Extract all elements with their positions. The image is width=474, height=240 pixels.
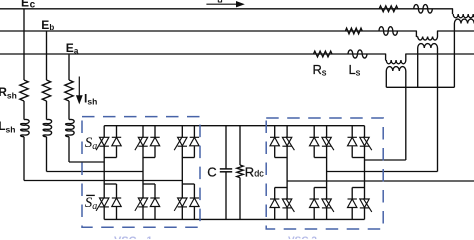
VSC1 leg2 midpoint wire (142, 158, 144, 185)
wire T3 secondary left leg (453, 24, 455, 88)
wire tap phase-c to VSC1 leg3 (24, 180, 182, 182)
VSC2 leg1 midpoint wire (286, 158, 288, 188)
wire shunt branch top (phase b) (46, 31, 48, 80)
svg-text:VSC 2: VSC 2 (288, 236, 317, 240)
VSC1 leg3 top cell switch branch (181, 126, 183, 138)
svg-text:Eb: Eb (41, 18, 54, 32)
VSC2 leg1 bottom cell top connector (275, 187, 287, 189)
wire phase-c source line Ec (0, 9, 453, 14)
VSC1 leg2 bottom cell anti-parallel diode branch (154, 184, 156, 198)
wire tap phase-a to VSC1 leg1 (69, 161, 104, 163)
VSC1 leg2 bottom cell switch branch (142, 184, 144, 198)
wire VSC2 leg3 midpoint to T1 secondary (365, 159, 406, 161)
transformer T1 secondary winding (phase a) (386, 67, 406, 71)
VSC1 leg1 top cell anti-parallel diode branch (116, 126, 118, 138)
wire VSC2 leg2 midpoint to T2 secondary (327, 171, 438, 173)
wire T1 secondary right leg (405, 71, 407, 160)
VSC2 leg1 bottom cell switch branch (286, 188, 288, 200)
VSC1 leg3 bottom cell anti-parallel diode branch (193, 184, 195, 198)
wire DC bus negative rail (104, 218, 364, 220)
wire shunt branch top (phase a) (68, 54, 70, 80)
VSC1 leg1 top cell bottom connector (104, 157, 116, 159)
VSC1 leg3 bottom cell top connector (182, 183, 194, 185)
VSC1 leg1 bottom cell top connector (104, 183, 116, 185)
VSC2 leg1 top cell switch branch (286, 126, 288, 138)
resistor Rs (phase c) (379, 6, 398, 12)
wire T1 secondary left leg (385, 71, 387, 87)
resistor Rsh (phase b) (42, 80, 50, 101)
VSC1 leg3 midpoint wire (181, 158, 183, 185)
wire secondary star-point bus (386, 86, 454, 88)
VSC2 leg2 bottom cell switch branch (326, 188, 328, 200)
VSC2 leg3 bottom cell switch branch (364, 188, 366, 200)
inductor Ls (phase b) (379, 27, 397, 36)
VSC2 leg1 bottom cell anti-parallel diode branch (274, 188, 276, 200)
resistor Rsh (phase c) (20, 80, 28, 101)
resistor Rsh (phase a) (65, 80, 73, 101)
label Sa-bar overline (86, 194, 95, 196)
wire phase-b source line Eb (0, 31, 418, 37)
wire capacitor branch bottom (225, 172, 227, 219)
wire between Rsh and Lsh (phase c) (23, 101, 25, 120)
current arrow i (top line) (206, 3, 237, 5)
svg-text:Ec: Ec (21, 0, 36, 11)
wire shunt branch top (phase c) (23, 9, 25, 80)
wire Rdc branch top (239, 126, 241, 165)
wire phase-a source line Ea (0, 54, 386, 60)
VSC2 dashed boundary box (266, 118, 383, 229)
transformer T1 primary winding (phase a) (386, 60, 406, 64)
transformer T2 primary winding (phase b) (418, 37, 438, 41)
inductor Lsh (phase a) (66, 119, 75, 136)
svg-text:Ea: Ea (66, 41, 79, 55)
VSC1 leg2 top cell switch branch (142, 126, 144, 138)
wire T2 secondary right leg (437, 48, 439, 172)
VSC2 leg2 top cell bottom connector (314, 157, 326, 159)
wire Rdc branch bottom (239, 178, 241, 220)
svg-text:Sa: Sa (85, 135, 98, 152)
wire capacitor branch top (225, 126, 227, 169)
svg-text:C: C (207, 164, 216, 179)
VSC2 leg1 top cell anti-parallel diode branch (274, 126, 276, 138)
wire between Rsh and Lsh (phase b) (46, 101, 48, 120)
resistor Rdc (237, 165, 243, 178)
wire between Rsh and Lsh (phase a) (68, 101, 70, 120)
wire shunt branch to VSC1 (phase a) (68, 137, 70, 162)
VSC2 leg2 top cell switch branch (326, 126, 328, 138)
VSC2 leg2 bottom cell top connector (314, 187, 326, 189)
wire DC bus positive rail (104, 125, 364, 127)
VSC1 leg1 bottom cell switch branch (103, 184, 105, 198)
VSC2 leg2 midpoint wire (326, 158, 328, 188)
current arrow Ish (78, 77, 80, 97)
VSC1 leg1 top cell switch branch (103, 126, 105, 138)
VSC2 leg1 top cell bottom connector (275, 157, 287, 159)
VSC2 leg2 bottom cell anti-parallel diode branch (313, 188, 315, 200)
transformer T3 secondary winding (phase c, clipped) (454, 19, 474, 23)
svg-text:Sa: Sa (85, 195, 98, 212)
svg-text:VSC - 1: VSC - 1 (114, 235, 153, 239)
inductor Ls (phase c) (414, 4, 433, 13)
VSC1 leg1 midpoint wire (103, 158, 105, 185)
wire T2 secondary left leg (417, 48, 419, 87)
VSC2 leg3 bottom cell anti-parallel diode branch (351, 188, 353, 200)
wire phase-a line to load (406, 54, 474, 60)
VSC1 leg3 top cell bottom connector (182, 157, 194, 159)
VSC2 leg3 bottom cell top connector (352, 187, 364, 189)
wire VSC2 leg1 midpoint to T3 secondary (off-page) (287, 180, 474, 182)
inductor Lsh (phase b) (43, 119, 52, 136)
VSC1 dashed boundary box (82, 117, 200, 228)
svg-text:Ish: Ish (84, 91, 97, 106)
VSC1 leg2 top cell anti-parallel diode branch (154, 126, 156, 138)
svg-text:Lsh: Lsh (0, 119, 15, 135)
resistor Rs (phase b) (345, 28, 362, 34)
VSC2 leg3 top cell anti-parallel diode branch (351, 126, 353, 138)
transformer T2 secondary winding (phase b) (418, 44, 438, 48)
VSC1 leg1 bottom cell anti-parallel diode branch (116, 184, 118, 198)
wire tap phase-b to VSC1 leg2 (47, 171, 144, 173)
svg-text:Rsh: Rsh (0, 85, 17, 101)
svg-text:Rs: Rs (313, 62, 327, 78)
VSC2 leg2 top cell anti-parallel diode branch (313, 126, 315, 138)
wire phase-b line to load (438, 31, 474, 37)
VSC2 leg3 top cell switch branch (364, 126, 366, 138)
capacitor C plates (220, 168, 232, 170)
svg-text:Ls: Ls (349, 62, 361, 78)
resistor Rs (phase a) (314, 51, 333, 57)
inductor Ls (phase a) (348, 50, 367, 58)
VSC1 leg3 top cell anti-parallel diode branch (193, 126, 195, 138)
wire shunt branch to VSC1 (phase b) (46, 137, 48, 172)
wire shunt branch to VSC1 (phase c) (23, 137, 25, 181)
transformer T3 primary winding (phase c, clipped) (453, 14, 474, 18)
VSC1 leg2 bottom cell top connector (143, 183, 155, 185)
inductor Lsh (phase c) (21, 119, 30, 136)
VSC1 leg2 top cell bottom connector (143, 157, 155, 159)
VSC2 leg3 top cell bottom connector (352, 157, 364, 159)
clipped current label above arrow (218, 0, 221, 2)
VSC1 leg3 bottom cell switch branch (181, 184, 183, 198)
VSC2 leg3 midpoint wire (364, 158, 366, 188)
svg-text:Rdc: Rdc (245, 164, 264, 179)
